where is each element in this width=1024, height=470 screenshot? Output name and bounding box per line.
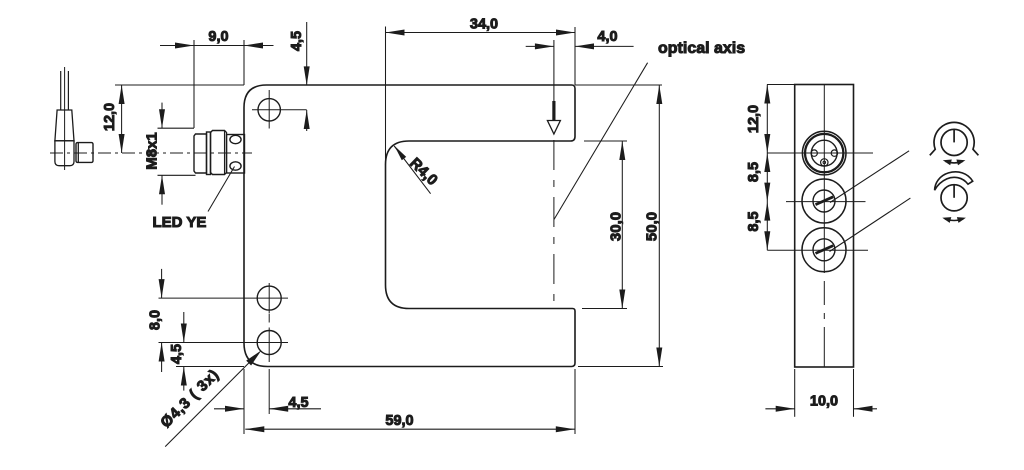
mounting hole top [258, 99, 280, 121]
side view housing [795, 85, 854, 368]
label R4,0 with leader arrow [406, 155, 441, 189]
svg-text:34,0: 34,0 [470, 17, 498, 33]
hole top crosshair [252, 109, 307, 111]
M8 connector ring [207, 132, 211, 175]
M8 pin bottom [821, 159, 828, 166]
M8 connector hex nut [211, 131, 227, 175]
cable connector socket nub [76, 143, 93, 163]
potentiometer 1 [802, 179, 846, 223]
connector axis centerline [50, 152, 252, 154]
svg-text:59,0: 59,0 [385, 413, 413, 429]
svg-text:8,0: 8,0 [148, 310, 164, 330]
cable connector body [55, 141, 74, 166]
svg-text:optical axis: optical axis [658, 40, 745, 57]
svg-text:12,0: 12,0 [102, 103, 118, 131]
svg-text:8,5: 8,5 [746, 162, 762, 182]
cable connector strain relief taper [55, 110, 74, 141]
side view M8 outer rings [802, 131, 846, 175]
mounting hole bottom [257, 331, 281, 355]
LED window top ellipse [230, 135, 241, 143]
mounting hole middle [257, 286, 281, 310]
bottom edge extension to left [176, 366, 244, 368]
hole bottom crosshair [159, 342, 289, 344]
extension line body left edge below [243, 369, 245, 434]
svg-text:10,0: 10,0 [810, 394, 838, 410]
extension line body right edge below [574, 369, 576, 434]
label diameter 4,3 (3x) with leader arrow [157, 366, 222, 431]
mating cable connector: cable [60, 71, 62, 110]
knob icon 2: rotate arrow [945, 219, 963, 221]
side view M8 inner circle [811, 140, 837, 166]
hole middle crosshair [159, 297, 289, 299]
front view: fork sensor body outline [244, 85, 575, 367]
knob icon 2: adjustment swoosh [935, 172, 973, 190]
dashed link between bottom holes [268, 314, 270, 323]
knob icon 1: rotate arrow [946, 161, 963, 163]
svg-text:M8x1: M8x1 [144, 132, 161, 170]
M8 connector thread barrel [194, 134, 207, 173]
svg-text:50,0: 50,0 [644, 212, 661, 241]
crosshair through M8 [767, 152, 873, 154]
extension line slot left edge above [385, 27, 387, 166]
svg-text:LED YE: LED YE [153, 214, 207, 231]
extension slot top right [584, 140, 627, 142]
M8 pin left [811, 150, 817, 156]
potentiometer 2 [802, 228, 846, 272]
crosshair through pot 1 [786, 201, 866, 203]
leader pot 2 to knob icon 2 [830, 198, 911, 251]
hole bottom extension line down [268, 369, 270, 414]
extension top edge right [575, 84, 662, 86]
M8 connector flange [227, 135, 245, 174]
svg-text:4,0: 4,0 [597, 29, 617, 45]
svg-text:8,5: 8,5 [746, 211, 762, 231]
extension line arm right edge above [574, 27, 576, 85]
knob icon 1: knob [941, 129, 967, 155]
leader pot 1 to knob icon 1 [830, 151, 909, 203]
extension line body left edge above [243, 40, 245, 85]
LED window bottom ellipse (yellow LED) [230, 162, 241, 170]
crosshair through pot 2 [767, 249, 868, 251]
cable connector vertical centerline [64, 67, 66, 170]
svg-text:4,5: 4,5 [289, 31, 305, 51]
extension lines side view below [794, 369, 796, 417]
M8 pin right [831, 150, 837, 156]
optical axis arrow into slot [553, 40, 555, 103]
top edge extension to left [115, 84, 244, 86]
knob icon 1: panel arc with feet [930, 122, 979, 155]
extension slot bottom right [582, 308, 627, 310]
side view centerline [823, 85, 825, 368]
svg-text:12,0: 12,0 [746, 105, 762, 133]
extension line thread start [193, 40, 195, 128]
knob icon 2: knob [941, 185, 967, 211]
svg-text:4,5: 4,5 [169, 344, 185, 364]
extension bottom edge right [578, 366, 663, 368]
svg-text:9,0: 9,0 [208, 29, 228, 45]
